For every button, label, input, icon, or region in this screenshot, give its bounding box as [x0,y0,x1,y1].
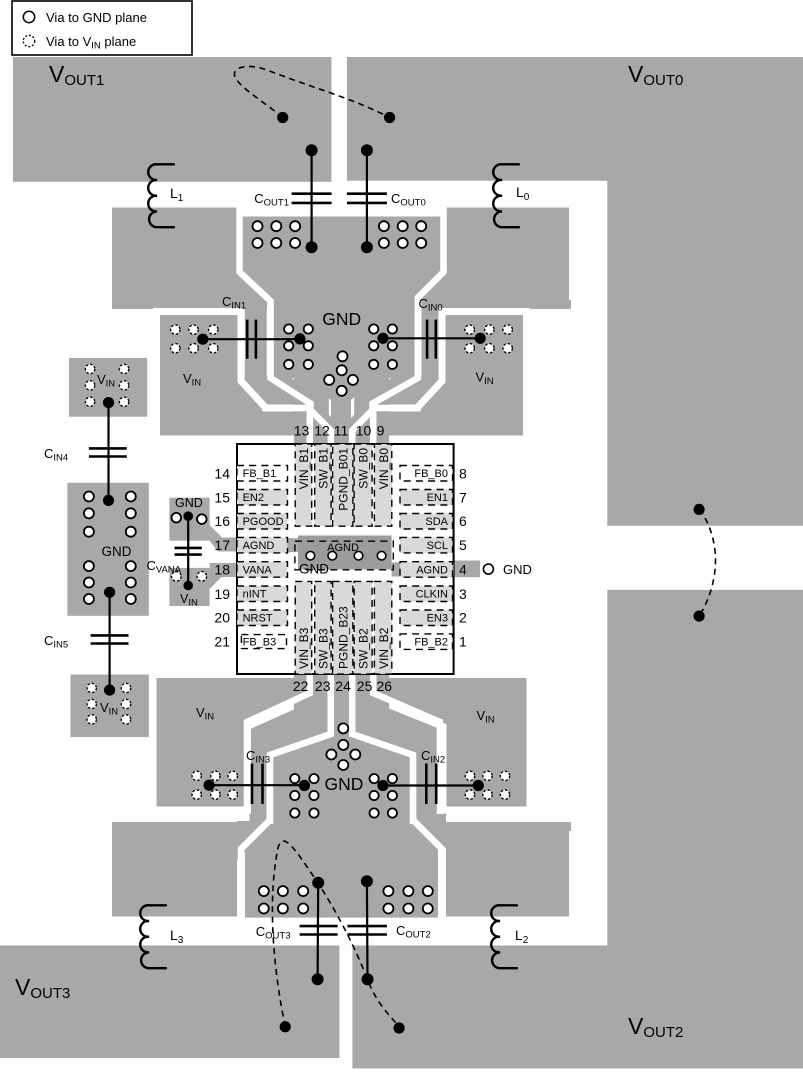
node dot CIN2 left [377,780,388,791]
plane SW_B3 node (under L3) with CIN3 peninsula and SW_B3 trace to pin 23 [112,674,333,916]
svg-text:GND: GND [175,496,203,510]
svg-text:12: 12 [314,423,330,439]
svg-text:FB_B2: FB_B2 [414,636,448,648]
via group GND bottom plane right (3x2) [383,886,432,913]
via group GND top plane left (3x2) [253,221,301,248]
node dot CIN4 bottom [103,495,114,506]
VIAS [84,66,716,1033]
node dot COUT3 bottom [312,973,324,985]
via group GND island left (2x3 + 2x3) [84,492,136,605]
node dot CIN0 left [377,333,388,344]
via pair VIN small island (CVANA) dashed [172,572,207,582]
svg-text:FB_B1: FB_B1 [243,468,277,480]
capacitor CIN3 [252,764,263,805]
wire CIN5 vertical [108,592,110,690]
svg-text:9: 9 [377,423,385,439]
thermal pad via 2 [328,551,337,560]
wire CIN0 horizontal [383,337,480,339]
via diamond top funnel [324,351,358,396]
svg-text:FB_B3: FB_B3 [243,636,277,648]
pin 20 NRST box [237,610,288,626]
svg-text:CLKIN: CLKIN [416,589,448,601]
plane VIN island top-right (with foot to pin 9) [376,312,526,440]
svg-text:EN3: EN3 [427,613,448,625]
channel between SW_B0 plane / CIN0 peninsula and top GND funnel, ends as gap pins 11|10 [352,204,443,444]
channel between SW_B1 plane / CIN1 peninsula and top GND funnel, ends as gap pins 12|11 [240,204,331,444]
svg-text:VANA: VANA [243,564,273,576]
svg-text:20: 20 [214,610,230,626]
via GND right of pin 4 [483,564,493,574]
pin 26 VIN_B2 box [374,581,391,674]
plane VIN island bottom-right (with foot to pin 26) [370,675,530,811]
svg-text:SDA: SDA [425,516,448,528]
plane VIN island top-left (with foot to pin 13) [157,312,307,440]
pin 6 SDA box [400,514,453,530]
plane SW_B0 node (under L0) with CIN0 peninsula and SW_B0 trace to pin 10 [349,208,571,444]
svg-text:AGND: AGND [416,564,448,576]
node dot CIN5 top [104,587,115,598]
svg-text:2: 2 [459,610,467,626]
svg-text:10: 10 [356,423,372,439]
trace VANA pin18 inside IC [237,562,244,576]
svg-text:EN1: EN1 [427,492,448,504]
svg-text:PGND_B23: PGND_B23 [337,606,351,669]
svg-text:5: 5 [459,537,467,553]
svg-text:Via to GND plane: Via to GND plane [46,10,147,25]
via group VIN island top-right dashed (3x2) [465,325,512,353]
wire CIN1 horizontal [203,338,300,340]
svg-text:1: 1 [459,634,467,650]
pin 5 SCL box [400,537,453,553]
trace AGND pin 4 to GND via (right side) [454,561,480,578]
svg-text:VIN_B1: VIN_B1 [297,448,311,490]
svg-text:GND: GND [299,562,329,577]
IC U1 body [237,444,454,674]
wire CIN3 horizontal [209,784,304,786]
svg-text:PGOOD: PGOOD [243,516,284,528]
node dot COUT3 top [312,877,324,889]
capacitor CIN0 [427,320,436,359]
legend via to GND plane symbol [23,11,34,22]
capacitor COUT2 [347,926,387,934]
inductor L3 [140,905,167,968]
svg-text:VIN_B2: VIN_B2 [377,627,391,669]
via group GND bottom funnel left (2x3) [290,774,318,818]
thermal pad via 4 [377,551,386,560]
svg-text:FB_B0: FB_B0 [414,468,448,480]
svg-text:17: 17 [214,537,230,553]
wire COUT1 vertical [311,150,313,247]
plane GND top (vias plane + funnel + traces to pins 13..9) [242,217,441,444]
plane VIN small island left-bottom (CIN5 bottom) [71,675,149,738]
dashed annotation arc right [699,509,715,616]
node dot bottom loop A [280,1021,291,1032]
via group VIN small island left-top dashed (3x2) [85,364,128,406]
plane VOUT1 [13,57,332,182]
channel gap pins 25|26 [373,674,440,814]
plane SW_B2 node (under L2) with CIN2 peninsula and SW_B2 trace to pin 25 [350,674,571,916]
node dot COUT1 bottom [306,241,318,253]
trace AGND pin4 thermal pad to right edge [392,562,454,576]
pin 22 VIN_B3 box [295,581,312,674]
capacitor COUT3 [300,926,338,934]
svg-text:VIN_B3: VIN_B3 [297,627,311,669]
via group GND funnel left (2x3) [284,324,313,369]
pin 10 SW_B0 box [354,444,372,526]
plane GND island left (between CIN4 and CIN5) [67,483,148,616]
pin 9 VIN_B0 box [374,444,391,526]
pin 18 VANA box [237,562,288,578]
node dot CIN3 left [204,780,215,791]
via group GND bottom funnel right (2x3) [370,774,398,818]
plane VIN small island (CVANA bottom) with tab to pin 18 [169,563,237,606]
channel between SW_B2 plane / CIN2 peninsula and bottom GND funnel, ends as gap pins 24|25 [412,819,442,920]
capacitor CIN2 [426,764,436,805]
channel gap pins 10|9 [373,408,421,444]
svg-text:23: 23 [315,678,331,694]
WHITECHANNELS [240,204,444,920]
trace AGND pin17 inside IC to thermal pad [237,538,298,552]
node dot right arc top [694,504,705,515]
plane GND bottom (vias plane + funnel + traces to pins 22..26) [245,674,438,918]
pin 21 FB_B3 box [241,635,286,649]
svg-text:13: 13 [294,423,310,439]
via pair GND small island (CVANA) [172,513,207,524]
via group VIN island top-left dashed (3x2) [171,325,218,353]
channel gap pins 22|23 [247,674,310,814]
via group VIN island bottom-left dashed (3x2) [192,771,238,799]
svg-text:SW_B1: SW_B1 [317,448,331,489]
legend box [12,1,192,55]
svg-text:6: 6 [459,513,467,529]
svg-text:26: 26 [377,678,393,694]
svg-text:SCL: SCL [427,540,448,552]
svg-text:4: 4 [459,562,467,578]
capacitor CVANA [175,548,202,555]
node dot COUT2 bottom [362,973,374,985]
channel between SW_B3 plane / CIN3 peninsula and bottom GND funnel, ends as gap pins 23|24 [241,819,271,920]
svg-text:11: 11 [334,423,349,439]
pin 19 nINT box [237,586,288,602]
svg-text:24: 24 [335,678,351,694]
svg-text:Via to VIN plane: Via to VIN plane [46,34,136,52]
thermal pad GND dashed outline [295,541,393,570]
node dot CIN5 bottom [104,685,115,696]
svg-text:GND: GND [325,774,364,794]
node dot right arc bottom [694,611,705,622]
inductor L0 [493,164,520,227]
inductor L2 [491,905,518,968]
svg-text:25: 25 [357,678,373,694]
pin 3 CLKIN box [400,586,453,602]
node dot CVANA bottom [183,581,193,591]
svg-text:AGND: AGND [243,540,275,552]
svg-text:AGND: AGND [327,542,359,554]
capacitor COUT1 [292,194,332,203]
pin 23 SW_B3 box [315,581,331,674]
wire CIN2 horizontal [383,784,478,786]
svg-text:7: 7 [459,489,467,505]
plane VOUT2 [352,590,803,1069]
node dot CIN0 right [475,333,486,344]
svg-text:SW_B2: SW_B2 [357,628,371,669]
node dot COUT0 bottom [361,241,373,253]
svg-text:GND: GND [102,544,132,559]
pin 14 FB_B1 box [237,466,288,482]
node dot CIN1 left [197,334,208,345]
plane VIN small island left-top (CIN4 top) [69,358,147,417]
node dot CIN3 right [299,780,310,791]
via group VIN small island left-bottom dashed (3x2) [87,683,131,724]
dashed annotation curve bottom loop [272,841,399,1027]
wire COUT2 vertical [366,881,369,979]
pin 17 AGND box [237,537,288,553]
svg-text:19: 19 [214,586,230,602]
capacitor CIN5 [91,635,129,643]
svg-text:16: 16 [214,513,230,529]
via group GND bottom plane left (3x2) [259,886,308,913]
via group GND funnel right (2x3) [369,324,397,369]
plane VIN island bottom-left (with foot to pin 22) [153,675,313,811]
via group VIN island bottom-right dashed (3x2) [465,771,509,799]
svg-text:18: 18 [214,562,230,578]
node dot COUT2 top [361,875,373,887]
wire CIN4 vertical [107,403,109,501]
legend via to VIN plane symbol [23,35,34,46]
channel gap pins 13|12 [262,408,310,444]
pin 25 SW_B2 box [354,581,372,674]
svg-text:SW_B3: SW_B3 [317,628,331,669]
via diamond bottom funnel [326,723,360,770]
svg-text:22: 22 [293,678,309,694]
svg-text:PGND_B01: PGND_B01 [337,448,351,511]
svg-text:14: 14 [214,465,230,481]
plane VOUT0 [347,57,803,526]
pin 16 PGOOD box [237,514,288,530]
thermal pad AGND [298,536,392,570]
pin 7 EN1 box [400,490,453,506]
pin 4 AGND box [400,562,453,578]
node dot CIN4 top [103,397,114,408]
node dot bottom loop B [394,1022,405,1033]
plane VOUT3 [0,946,339,1059]
svg-text:VIN_B0: VIN_B0 [377,448,391,490]
node dot CIN1 right [294,333,305,344]
node dot top loop A [277,112,288,123]
via group GND top plane right (3x2) [379,221,426,248]
capacitor COUT0 [347,194,387,203]
pin 15 EN2 box [237,490,288,506]
node dot top loop B [384,112,395,123]
node dot COUT1 top [306,144,318,156]
pin 2 EN3 box [400,610,453,626]
svg-text:21: 21 [214,634,230,650]
capacitor CIN4 [89,448,127,456]
capacitor CIN1 [247,320,256,359]
wire CVANA vertical [187,516,189,585]
plane SW_B1 node (under L1) with CIN1 peninsula and SW_B1 trace to pin 12 [112,208,334,444]
pin 24 PGND_B23 box [333,581,353,674]
inductor L1 [148,164,175,227]
svg-text:GND: GND [322,309,361,329]
pin 11 PGND_B01 box [333,444,353,526]
thermal pad via 3 [354,551,363,560]
wire COUT0 vertical [366,150,368,247]
plane GND small island (CVANA top) with tab to pin 17 [169,498,237,552]
svg-text:SW_B0: SW_B0 [357,448,371,489]
pin 1 FB_B2 box [400,634,453,650]
node dot CVANA top [183,511,193,521]
node dot CIN2 right [473,780,484,791]
thermal pad via 1 [306,551,315,560]
svg-text:3: 3 [459,586,467,602]
svg-text:nINT: nINT [243,589,267,601]
svg-text:GND: GND [503,562,532,577]
svg-text:NRST: NRST [243,613,273,625]
IC [214,423,467,695]
pin 8 FB_B0 box [400,466,453,482]
svg-text:8: 8 [459,465,467,481]
pin 12 SW_B1 box [315,444,331,526]
wire COUT3 vertical [317,883,320,980]
node dot COUT0 top [361,144,373,156]
svg-text:EN2: EN2 [243,492,264,504]
pin 13 VIN_B1 box [295,444,312,526]
svg-text:15: 15 [214,489,230,505]
dashed annotation curve top loop [234,66,389,117]
